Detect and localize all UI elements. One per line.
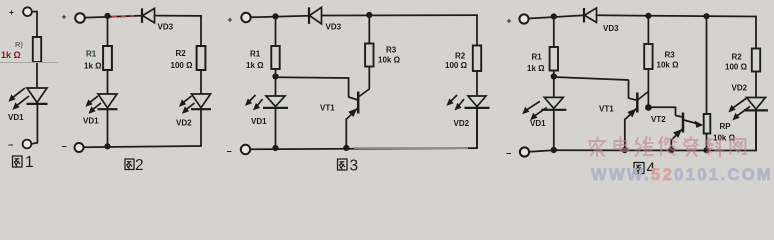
svg-text:VD3: VD3	[326, 23, 342, 32]
svg-text:R2: R2	[455, 52, 466, 61]
label R2 (circuit 3)	[455, 52, 466, 61]
node top of RP branch (circuit 4)	[703, 13, 709, 19]
battery + terminal (circuit 1)	[9, 7, 32, 17]
node VT2 emitter at rail (circuit 4)	[668, 147, 674, 153]
resistor R2 (circuit 4)	[752, 49, 760, 72]
transistor VT1 (circuit 4)	[626, 92, 649, 120]
faint scan artifact line	[0, 62, 58, 64]
value RP 10kΩ (circuit 4)	[713, 134, 736, 143]
wire node to R1 (circuit 3)	[275, 16, 277, 46]
label R1 (circuit 3)	[250, 50, 261, 59]
node VT1 emitter at rail (circuit 3)	[343, 145, 349, 151]
svg-text:R1: R1	[532, 53, 543, 62]
wire R2 to VD2 (circuit 3)	[476, 71, 478, 96]
node top of R1 branch (circuit 4)	[551, 13, 557, 19]
wire + to VD3 (circuit 3)	[251, 16, 309, 18]
resistor R1 (circuit 3)	[271, 46, 279, 69]
label VD1 (circuit 1)	[8, 113, 24, 122]
wire RP bottom to rail (circuit 4)	[706, 134, 708, 151]
svg-text:R2: R2	[176, 49, 187, 58]
svg-text:R2: R2	[732, 53, 743, 62]
svg-text:VD1: VD1	[83, 117, 99, 126]
svg-text:VT1: VT1	[320, 104, 335, 113]
LED VD1 (circuit 1)	[8, 88, 47, 110]
resistor R1 (circuit 4)	[550, 47, 558, 71]
wire R1 to node (circuit 4)	[553, 71, 555, 77]
svg-text:VD3: VD3	[603, 24, 619, 33]
wire R1 to node (circuit 3)	[275, 69, 277, 77]
wire VD2 to bottom rail (circuit 4)	[755, 111, 757, 151]
wire VD2 to bottom rail (circuit 2)	[200, 110, 202, 147]
value 100Ω (circuit 4)	[725, 63, 748, 72]
base wire to VT2 (circuit 4)	[648, 107, 682, 117]
battery - terminal (circuit 3)	[227, 145, 251, 157]
diode VD3 (circuit 3)	[309, 7, 322, 24]
wire R3 top (circuit 4)	[647, 16, 649, 44]
node RP at rail (circuit 4)	[703, 147, 709, 153]
resistor R1 (circuit 1)	[33, 37, 41, 62]
transistor VT2 (circuit 4)	[672, 113, 703, 140]
label VD3 (circuit 3)	[326, 23, 342, 32]
svg-text:100 Ω: 100 Ω	[171, 61, 194, 70]
label VD1 (circuit 2)	[83, 117, 99, 126]
wire RP top (circuit 4)	[706, 16, 708, 114]
wire R2 to VD2 (circuit 4)	[755, 72, 757, 98]
battery + terminal (circuit 3)	[228, 13, 251, 25]
node bottom of VD1 branch (circuit 2)	[104, 143, 110, 149]
LED VD2 (circuit 3)	[446, 95, 489, 110]
svg-text:−: −	[227, 147, 232, 157]
svg-text:R3: R3	[386, 46, 397, 55]
label VD3 (circuit 2)	[158, 23, 174, 32]
svg-text:+: +	[9, 7, 14, 17]
svg-text:R1: R1	[86, 50, 97, 59]
node R1-VD1-base junction (circuit 3)	[272, 73, 278, 79]
wire R3 to VT1 collector (circuit 3)	[368, 67, 370, 90]
battery + terminal (circuit 2)	[62, 12, 85, 23]
resistor R2 (circuit 3)	[473, 46, 481, 72]
svg-text:VT1: VT1	[599, 104, 614, 113]
resistor R3 (circuit 4)	[644, 44, 652, 69]
node VT1 emitter at rail (circuit 4)	[622, 147, 628, 153]
wire node to VD1 (circuit 3)	[275, 77, 277, 97]
caption 图2	[125, 157, 144, 174]
svg-text:−: −	[62, 142, 67, 152]
wire + to VD3 (circuit 4)	[529, 15, 585, 18]
svg-text:1k Ω: 1k Ω	[527, 64, 545, 73]
red watermark 家电维修资料网	[589, 137, 745, 156]
svg-text:VD1: VD1	[8, 113, 24, 122]
wire VT2 emitter to bottom rail (circuit 4)	[670, 139, 672, 150]
wire R1 to VD1 (circuit 1)	[36, 62, 38, 88]
svg-text:VD2: VD2	[732, 84, 748, 93]
bottom rail (circuit 2)	[84, 146, 202, 147]
node top of R1 branch (circuit 2)	[104, 13, 110, 19]
svg-text:VD2: VD2	[454, 119, 470, 128]
potentiometer RP (circuit 4)	[704, 114, 711, 134]
node bottom of VD1 branch (circuit 3)	[272, 145, 278, 151]
svg-text:VD1: VD1	[251, 117, 267, 126]
LED VD1 (circuit 2)	[85, 94, 117, 114]
label R2 (circuit 4)	[732, 53, 743, 62]
svg-text:VD3: VD3	[158, 23, 174, 32]
resistor R2 (circuit 2)	[197, 46, 206, 70]
wire R3 top (circuit 3)	[368, 15, 370, 44]
value 1kΩ (circuit 2)	[84, 62, 102, 71]
svg-text:+: +	[62, 12, 67, 22]
value 10kΩ (circuit 4)	[657, 61, 680, 70]
LED VD1 (circuit 3)	[245, 95, 288, 110]
label R1 (circuit 1)	[15, 40, 23, 49]
red watermark dashes on wire (circuit 2)	[112, 15, 134, 18]
LED VD2 (circuit 4)	[728, 98, 768, 121]
battery - terminal (circuit 2)	[62, 142, 84, 153]
label R2 (circuit 2)	[176, 49, 187, 58]
value 1kΩ (circuit 4)	[527, 64, 545, 73]
label VD2 (circuit 2)	[176, 119, 192, 128]
svg-text:1k Ω: 1k Ω	[84, 62, 102, 71]
label VD1 (circuit 3)	[251, 117, 267, 126]
wire VT1 emitter to bottom rail (circuit 3)	[345, 118, 347, 148]
wire node to R1 (circuit 2)	[107, 16, 109, 46]
node VT1 collector / VT2 base (circuit 4)	[645, 104, 652, 111]
wire R2 to VD2 (circuit 2)	[200, 70, 202, 94]
value 1kΩ (circuit 1)	[1, 50, 21, 60]
svg-text:R3: R3	[665, 51, 676, 60]
wire VD1 to bottom rail (circuit 4)	[553, 110, 555, 150]
wire VD1 to bottom rail (circuit 3)	[275, 108, 277, 148]
faded rail segment (scan artifact, circuit 3)	[354, 147, 468, 149]
wire VD1 to bottom rail (circuit 2)	[107, 110, 109, 147]
svg-text:R1: R1	[250, 50, 261, 59]
wire R3 down to VT2 base node (circuit 4)	[647, 69, 649, 108]
base wire to VT1 (circuit 4)	[554, 77, 637, 100]
wire + to VD3 (circuit 2)	[85, 16, 142, 18]
value 100Ω (circuit 3)	[445, 61, 468, 70]
base wire to VT1 (circuit 3)	[276, 77, 358, 100]
LED VD1 (circuit 4)	[522, 97, 566, 120]
battery + terminal (circuit 4)	[507, 14, 529, 25]
label VD1 (circuit 4)	[530, 119, 546, 128]
node R1-VD1-base junction (circuit 4)	[551, 73, 557, 79]
label RP (circuit 4)	[720, 122, 732, 131]
transistor VT1 (circuit 3)	[347, 89, 370, 119]
label VD3 (circuit 4)	[603, 24, 619, 33]
svg-text:WWW.520101.COM: WWW.520101.COM	[591, 166, 773, 184]
svg-text:−: −	[8, 140, 13, 150]
svg-text:−: −	[506, 149, 511, 159]
label R1 (circuit 4)	[532, 53, 543, 62]
label R1 (circuit 2)	[86, 50, 97, 59]
resistor R1 (circuit 2)	[103, 46, 112, 70]
wire + terminal to R1 (circuit 1)	[32, 11, 38, 37]
svg-text:RP: RP	[720, 122, 732, 131]
label VD2 (circuit 3)	[454, 119, 470, 128]
value 100Ω (circuit 2)	[171, 61, 194, 70]
svg-text:+: +	[507, 16, 512, 26]
caption 图3	[338, 158, 359, 175]
svg-text:2: 2	[135, 157, 144, 174]
wire VD3 to R2 branch (circuit 2)	[155, 16, 202, 46]
wire node to VD1 (circuit 4)	[553, 77, 555, 98]
svg-text:R): R)	[15, 40, 23, 49]
node VD1 at rail (circuit 4)	[551, 147, 557, 153]
watermark WWW.520101.COM	[591, 166, 773, 184]
LED VD2 (circuit 2)	[179, 94, 211, 114]
svg-text:1k Ω: 1k Ω	[246, 61, 264, 70]
caption 图1	[13, 154, 34, 171]
svg-text:10k Ω: 10k Ω	[657, 61, 680, 70]
node top of R3 branch (circuit 4)	[645, 13, 651, 19]
svg-text:VT2: VT2	[651, 115, 666, 124]
svg-text:100 Ω: 100 Ω	[445, 61, 468, 70]
svg-text:100 Ω: 100 Ω	[725, 63, 748, 72]
wire VT1 emitter to bottom rail (circuit 4)	[624, 119, 626, 151]
bottom rail (circuit 4)	[529, 110, 757, 152]
value 10kΩ (circuit 3)	[378, 56, 401, 65]
battery - terminal (circuit 4)	[506, 147, 529, 158]
diode VD3 (circuit 4)	[584, 8, 597, 23]
diode VD3 (circuit 2)	[142, 8, 155, 23]
wire node to R1 (circuit 4)	[553, 17, 555, 48]
value 1kΩ (circuit 3)	[246, 61, 264, 70]
top rail VD3 to R2 branch (circuit 3)	[322, 15, 478, 45]
wire R1 to VD1 (circuit 2)	[107, 70, 109, 94]
svg-text:1k Ω: 1k Ω	[1, 50, 21, 60]
label VT1 (circuit 3)	[320, 104, 335, 113]
label VT1 (circuit 4)	[599, 104, 614, 113]
battery - terminal (circuit 1)	[8, 140, 31, 150]
label R3 (circuit 3)	[386, 46, 397, 55]
bottom rail (circuit 3)	[250, 107, 478, 149]
label VT2 (circuit 4)	[651, 115, 666, 124]
node top of R1 branch (circuit 3)	[272, 13, 278, 19]
node top of R3 branch (circuit 3)	[366, 12, 372, 18]
svg-text:+: +	[228, 15, 233, 25]
wire VD2 to bottom rail (circuit 3)	[476, 108, 478, 148]
svg-text:10k Ω: 10k Ω	[378, 56, 401, 65]
label R3 (circuit 4)	[665, 51, 676, 60]
caption 图4	[634, 161, 656, 178]
svg-text:VD1: VD1	[530, 119, 546, 128]
svg-text:1: 1	[25, 154, 34, 171]
svg-text:3: 3	[350, 158, 359, 175]
label VD2 (circuit 4)	[732, 84, 748, 93]
resistor R3 (circuit 3)	[365, 44, 373, 67]
svg-text:VD2: VD2	[176, 119, 192, 128]
top rail VD3 to R2 branch (circuit 4)	[597, 15, 757, 48]
wire VD1 to - terminal (circuit 1)	[32, 104, 38, 144]
